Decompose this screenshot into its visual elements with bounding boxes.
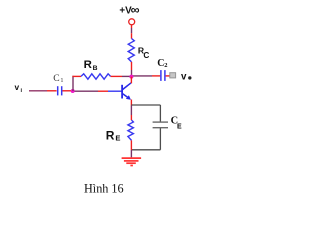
wire collector up to node [130,77,132,84]
svg-text:E: E [115,134,120,143]
wire RC to collector node [131,62,133,70]
wire segment red [152,75,160,77]
svg-text:C: C [53,73,59,84]
wire RE to ground [130,140,132,150]
wire segment red [131,33,133,38]
wire segment red [47,90,57,92]
wire CE branch bottom [131,149,160,151]
svg-text:∞: ∞ [131,3,140,17]
label RC [138,45,150,60]
label +Vcc [119,3,139,17]
svg-text:R: R [84,59,92,71]
wire segment purple [122,75,132,77]
wire segment purple [131,70,133,77]
svg-text:i: i [21,88,23,94]
wire CE branch right vertical lower [159,128,161,150]
svg-text:R: R [106,128,115,142]
wire emitter branch to CE (top) [131,104,160,106]
capacitor C1 [58,86,62,95]
wire segment red [130,115,132,120]
transistor Q1 base bar [121,85,123,99]
node collector (junction dot) [129,75,133,79]
wire emitter down to RE [130,100,132,106]
svg-text:2: 2 [164,62,167,69]
transistor Q1 emitter lead with arrow [123,94,131,100]
label vo [181,71,192,82]
wire base node to transistor base [75,90,99,92]
wire RB right to collector node [111,75,122,77]
svg-text:E: E [177,123,182,130]
wire corner to RB left [72,75,81,77]
base lead [108,90,122,92]
wire segment purple [131,28,133,33]
svg-text:v: v [181,71,187,82]
wire Vcc to RC [131,25,133,28]
label C1 [53,73,63,84]
Vcc terminal [129,19,135,25]
output terminal box [170,73,176,78]
label vi [15,82,23,94]
resistor RC [128,39,134,62]
capacitor CE [153,122,168,128]
wire segment [98,90,108,92]
wire segment purple [130,106,132,116]
svg-text:B: B [93,65,98,72]
node base (junction dot) [71,89,75,93]
resistor RE [128,120,133,140]
svg-text:C: C [143,51,149,60]
wire CE branch right vertical upper [159,105,161,122]
ground [122,158,142,165]
svg-text:1: 1 [60,77,63,84]
wire vi to C1 [29,90,47,92]
wire collector node to C2 [132,75,153,77]
wire RE to ground lower (purple) [130,150,132,157]
wire C1 to base node [62,90,72,92]
svg-text:v: v [15,82,20,92]
label CE [171,115,182,130]
svg-text:Hình 16: Hình 16 [84,181,124,195]
capacitor C2 [161,70,165,81]
resistor RB [81,74,111,79]
transistor Q1 collector lead [123,83,132,90]
label C2 [157,58,167,69]
wire base node up to RB [72,76,74,91]
wire C2 to output terminal [166,75,171,77]
label RE [106,128,121,142]
label RB [84,59,98,72]
